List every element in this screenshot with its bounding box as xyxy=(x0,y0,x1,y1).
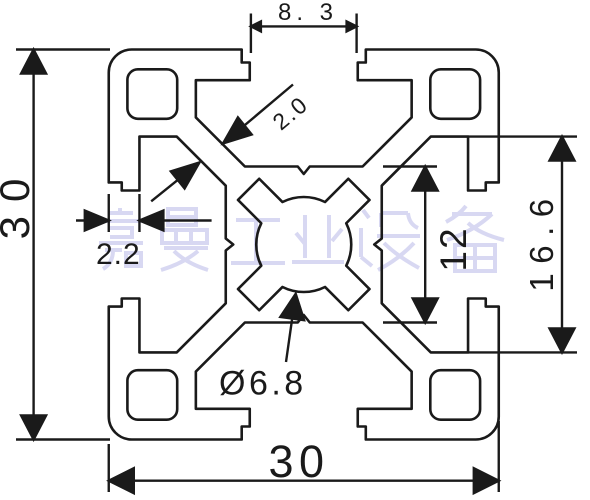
svg-text:16.6: 16.6 xyxy=(523,189,560,291)
svg-text:2.2: 2.2 xyxy=(96,238,141,271)
svg-text:30: 30 xyxy=(268,436,329,487)
svg-text:30: 30 xyxy=(0,165,38,240)
svg-text:8. 3: 8. 3 xyxy=(278,0,338,26)
svg-text:12: 12 xyxy=(433,226,474,271)
svg-text:2.0: 2.0 xyxy=(267,91,313,135)
svg-text:Ø6.8: Ø6.8 xyxy=(219,365,307,403)
